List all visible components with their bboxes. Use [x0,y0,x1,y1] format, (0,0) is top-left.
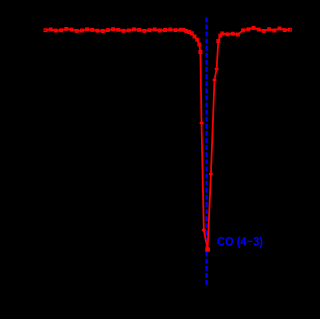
svg-text:CO (4−3): CO (4−3) [217,235,263,249]
